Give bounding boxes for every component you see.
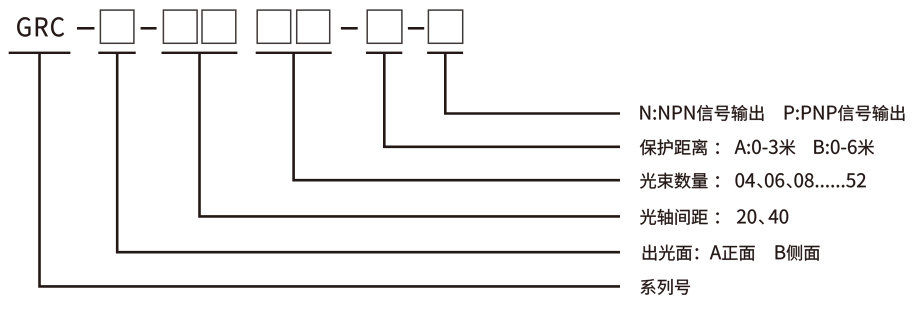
label: light exit face: [643, 245, 755, 261]
label: beam count: [640, 173, 719, 189]
underline bar: protect distance group: [366, 52, 402, 54]
leader line: output: [445, 53, 620, 114]
hyphen separator 2: [141, 27, 157, 30]
digit box 5 (beam count ones): [297, 10, 330, 43]
series code text GRC: [17, 17, 64, 36]
hyphen separator 1: [77, 27, 95, 30]
underline bar: output group: [427, 52, 463, 54]
label: protection distance (cont): [735, 139, 796, 155]
digit box 4 (beam count tens): [257, 10, 291, 43]
hyphen separator 4: [408, 27, 424, 30]
label: beam count (cont): [736, 173, 866, 188]
hyphen separator 3: [341, 27, 358, 30]
digit box 7 (output type): [428, 10, 462, 43]
label: output type: [640, 105, 763, 121]
label: protection distance: [640, 139, 719, 155]
digit box 3 (axis pitch ones): [202, 10, 236, 43]
label: protection distance (cont): [814, 139, 874, 155]
underline bar: axis pitch group: [162, 52, 238, 54]
label: light exit face (cont): [776, 245, 820, 261]
digit box 1 (exit face): [100, 10, 133, 43]
digit box 6 (protect distance): [367, 10, 402, 43]
underline bar: beam count group: [256, 52, 332, 54]
underline bar: exit face group: [98, 52, 135, 54]
label: optical axis pitch: [640, 209, 719, 225]
leader line: exit face: [117, 53, 620, 252]
leader line: protect distance: [384, 53, 620, 147]
digit box 2 (axis pitch tens): [163, 10, 197, 43]
label: output type (cont): [785, 105, 905, 121]
leader line: series: [40, 53, 621, 286]
underline bar: series group: [9, 52, 71, 54]
label: series number: [641, 279, 690, 295]
label: optical axis pitch (cont): [737, 209, 788, 224]
leader line: beam count: [294, 53, 620, 180]
leader line: axis pitch: [200, 53, 621, 216]
